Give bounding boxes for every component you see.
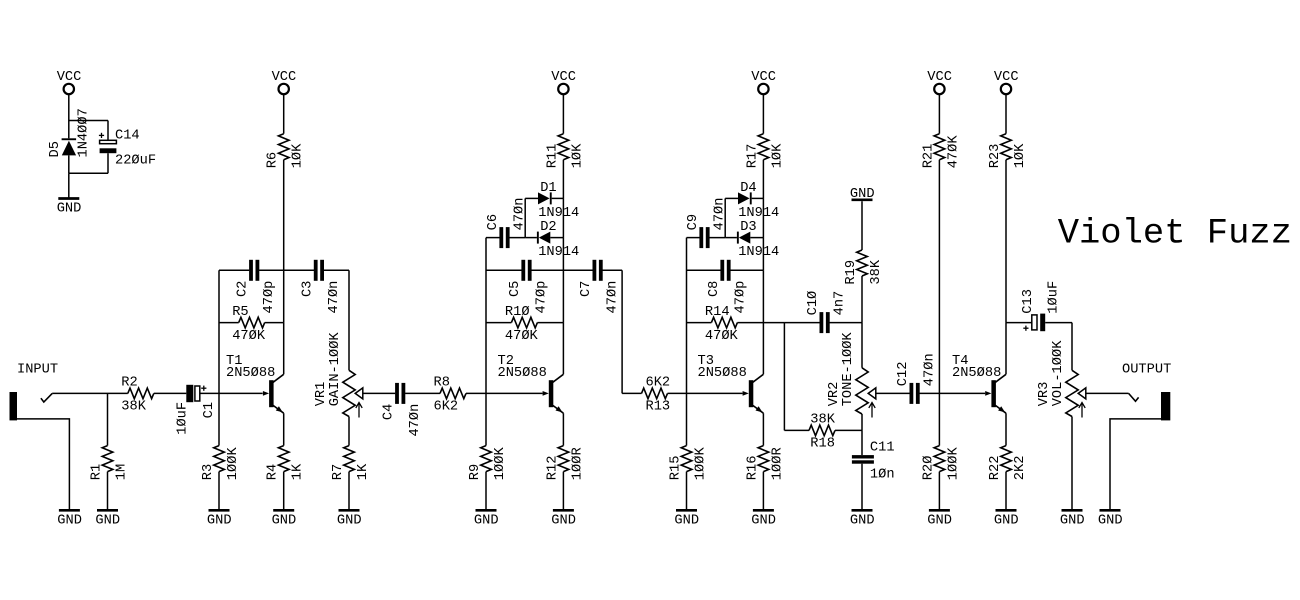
wire <box>861 276 863 323</box>
svg-text:GND: GND <box>927 513 952 528</box>
transistor T4 2N5088 <box>985 374 1006 413</box>
wire <box>762 472 764 509</box>
svg-text:GND: GND <box>551 513 576 528</box>
wire <box>219 269 249 271</box>
svg-text:GND: GND <box>57 202 82 217</box>
svg-text:D2: D2 <box>540 220 556 235</box>
wire <box>724 198 726 237</box>
svg-text:VCC: VCC <box>551 70 576 85</box>
svg-text:C9: C9 <box>686 214 701 230</box>
wire <box>218 270 220 393</box>
wire <box>108 392 128 394</box>
wire <box>725 197 738 199</box>
svg-text:VR1: VR1 <box>314 382 329 407</box>
wire <box>283 472 285 509</box>
wire <box>69 172 108 174</box>
svg-text:2N5Ø88: 2N5Ø88 <box>226 366 275 381</box>
svg-text:R18: R18 <box>810 437 835 452</box>
VCC (supply) <box>64 84 74 94</box>
resistor R8 <box>440 388 466 399</box>
svg-text:GND: GND <box>1098 513 1123 528</box>
resistor R22 <box>1001 446 1012 472</box>
capacitor C9 <box>699 227 703 248</box>
svg-text:R19: R19 <box>844 260 859 285</box>
svg-text:R6: R6 <box>266 152 281 168</box>
wire <box>938 94 940 134</box>
transistor T2 2N5088 <box>543 374 564 413</box>
output jack tip contact <box>1129 393 1139 401</box>
input jack tip contact <box>41 393 52 402</box>
svg-text:VCC: VCC <box>927 70 952 85</box>
svg-text:C1: C1 <box>202 402 217 418</box>
resistor R6 <box>278 134 289 160</box>
ground (input sleeve) <box>59 509 80 512</box>
svg-text:47Øn: 47Øn <box>327 281 342 314</box>
svg-text:R2: R2 <box>121 376 137 391</box>
svg-text:R21: R21 <box>921 144 936 169</box>
wire <box>835 429 862 431</box>
svg-text:4n7: 4n7 <box>833 291 848 316</box>
output jack sleeve wire <box>1110 419 1161 509</box>
wire <box>1045 322 1072 324</box>
svg-text:47Øp: 47Øp <box>535 281 550 314</box>
wire <box>219 322 239 324</box>
wire <box>265 322 284 324</box>
resistor R16 <box>758 446 769 472</box>
resistor R9 <box>481 446 492 472</box>
diode D4 1N914 <box>738 192 752 204</box>
resistor R17 <box>758 134 769 160</box>
wire <box>283 160 285 271</box>
capacitor C7 <box>593 260 597 281</box>
ground (R3) <box>209 509 230 512</box>
wire <box>939 392 985 394</box>
resistor R14 <box>711 317 737 328</box>
svg-text:C5: C5 <box>508 281 523 297</box>
wire <box>107 153 109 173</box>
svg-text:VR2: VR2 <box>827 382 842 407</box>
svg-text:R4: R4 <box>266 464 281 480</box>
svg-text:GND: GND <box>95 513 120 528</box>
svg-text:1K: 1K <box>291 463 306 480</box>
wire <box>154 392 187 394</box>
svg-text:1Øn: 1Øn <box>870 468 895 483</box>
svg-text:1N914: 1N914 <box>538 206 579 221</box>
wire <box>524 198 526 237</box>
wire <box>552 197 564 199</box>
wire <box>752 197 764 199</box>
wire <box>830 322 863 324</box>
wire <box>668 392 687 394</box>
wire <box>562 198 564 237</box>
wire <box>737 322 763 324</box>
svg-text:1ØØR: 1ØØR <box>570 447 585 480</box>
wire <box>861 414 863 430</box>
ground (R9) <box>476 509 497 512</box>
wire <box>730 269 763 271</box>
svg-text:R1: R1 <box>90 464 105 480</box>
transistor T1 2N5088 <box>263 374 284 413</box>
resistor R12 <box>558 446 569 472</box>
svg-text:C2: C2 <box>236 281 251 297</box>
svg-text:1ØuF: 1ØuF <box>1047 281 1062 314</box>
svg-text:R13: R13 <box>646 400 671 415</box>
svg-text:1ØK: 1ØK <box>291 143 306 168</box>
wire <box>562 238 564 271</box>
wire <box>762 413 764 445</box>
VR2 wiper <box>868 388 876 399</box>
wire <box>562 472 564 509</box>
svg-text:R14: R14 <box>705 305 730 320</box>
wire <box>486 269 522 271</box>
VR1 wiper <box>355 388 363 399</box>
wire <box>725 237 737 239</box>
svg-text:2K2: 2K2 <box>1013 456 1028 481</box>
wire <box>686 238 688 394</box>
wire <box>531 269 563 271</box>
input jack <box>10 392 18 420</box>
VR1 direction arrow <box>356 403 362 418</box>
svg-text:R15: R15 <box>669 456 684 481</box>
capacitor C3 <box>314 260 318 281</box>
ground (C11) <box>852 509 873 512</box>
svg-text:R9: R9 <box>468 464 483 480</box>
wire <box>1005 323 1007 375</box>
wire <box>784 429 809 431</box>
wire <box>485 238 487 394</box>
wire <box>486 237 500 239</box>
svg-text:GND: GND <box>674 513 699 528</box>
wire <box>621 270 623 393</box>
svg-text:GND: GND <box>1060 513 1085 528</box>
wire <box>107 393 109 445</box>
svg-text:GND: GND <box>474 513 499 528</box>
capacitor C13 10uF electrolytic <box>1032 314 1045 332</box>
wire <box>486 322 511 324</box>
wire <box>525 237 537 239</box>
wire <box>687 392 743 394</box>
ground (R20) <box>929 509 950 512</box>
resistor R23 <box>1001 134 1012 160</box>
diode D2 1N914 <box>537 232 550 244</box>
ground (R16) <box>753 509 774 512</box>
wire <box>405 392 440 394</box>
svg-text:38K: 38K <box>121 400 146 415</box>
svg-text:47Øp: 47Øp <box>734 281 749 314</box>
capacitor C14 220uF electrolytic <box>100 140 117 153</box>
transistor T3 2N5088 <box>743 374 764 413</box>
wire <box>1006 322 1032 324</box>
svg-text:2N5Ø88: 2N5Ø88 <box>952 366 1001 381</box>
svg-text:47Øn: 47Øn <box>408 404 423 437</box>
wire <box>709 237 725 239</box>
svg-text:1ØØK: 1ØØK <box>493 447 508 481</box>
input jack sleeve wire <box>17 419 69 509</box>
VCC (R23) <box>1001 84 1011 94</box>
svg-text:1ØØK: 1ØØK <box>226 447 241 481</box>
svg-text:R7: R7 <box>331 464 346 480</box>
wire <box>550 237 563 239</box>
VCC (R21) <box>934 84 944 94</box>
wire <box>107 121 109 141</box>
wire <box>687 269 721 271</box>
wire <box>259 269 284 271</box>
wire <box>466 392 486 394</box>
svg-text:47ØK: 47ØK <box>946 135 961 169</box>
svg-text:C11: C11 <box>870 440 895 455</box>
wire <box>686 393 688 445</box>
wire <box>218 393 220 445</box>
wire <box>485 393 487 445</box>
wire <box>324 269 349 271</box>
svg-text:R23: R23 <box>988 144 1003 169</box>
capacitor C10 <box>820 312 824 333</box>
diode D3 1N914 <box>737 232 750 244</box>
svg-text:1ØØR: 1ØØR <box>770 447 785 480</box>
capacitor C8 <box>720 260 724 281</box>
wire <box>687 322 712 324</box>
svg-text:D1: D1 <box>540 181 556 196</box>
svg-text:VCC: VCC <box>994 70 1019 85</box>
svg-text:R11: R11 <box>545 144 560 169</box>
wire <box>1005 413 1007 445</box>
svg-text:1N914: 1N914 <box>538 245 579 260</box>
wire <box>762 94 764 134</box>
svg-text:VCC: VCC <box>272 70 297 85</box>
wire <box>283 413 285 445</box>
svg-text:1ØuF: 1ØuF <box>176 402 191 435</box>
svg-text:GND: GND <box>207 513 232 528</box>
svg-text:2N5Ø88: 2N5Ø88 <box>698 366 747 381</box>
svg-text:R3: R3 <box>201 464 216 480</box>
svg-text:D5: D5 <box>48 141 63 157</box>
capacitor C4 <box>395 383 399 404</box>
svg-text:R1Ø: R1Ø <box>505 305 530 320</box>
output jack <box>1161 392 1170 420</box>
ground (R1) <box>97 509 118 512</box>
resistor R1 <box>102 446 113 472</box>
resistor R5 <box>239 317 265 328</box>
wire <box>784 322 819 324</box>
wire <box>283 94 285 134</box>
ground (R7) <box>339 509 360 512</box>
svg-text:C14: C14 <box>115 129 140 144</box>
wire <box>938 160 940 394</box>
wire <box>686 472 688 509</box>
svg-text:GND: GND <box>994 513 1019 528</box>
wire <box>938 472 940 509</box>
resistor R4 <box>278 446 289 472</box>
wire <box>1005 472 1007 509</box>
svg-text:VR3: VR3 <box>1037 382 1052 407</box>
svg-text:1ØØK: 1ØØK <box>946 447 961 481</box>
capacitor C12 <box>910 383 914 404</box>
wire <box>283 323 285 375</box>
wire <box>622 392 641 394</box>
wire <box>1071 323 1073 371</box>
svg-text:C6: C6 <box>486 214 501 230</box>
wire <box>68 94 70 120</box>
svg-text:1N4ØØ7: 1N4ØØ7 <box>77 108 92 157</box>
svg-text:1K: 1K <box>356 463 371 480</box>
ground (R15) <box>676 509 697 512</box>
svg-text:38K: 38K <box>869 259 884 284</box>
svg-text:1ØK: 1ØK <box>1013 143 1028 168</box>
svg-text:C13: C13 <box>1021 289 1036 314</box>
wire <box>68 173 70 197</box>
wire <box>562 323 564 375</box>
wire <box>284 269 314 271</box>
resistor R18 <box>809 425 835 436</box>
svg-text:C12: C12 <box>896 362 911 387</box>
svg-text:1ØK: 1ØK <box>570 143 585 168</box>
resistor R20 <box>934 446 945 472</box>
capacitor C5 <box>521 260 525 281</box>
VCC (T2) <box>558 84 568 94</box>
resistor R7 <box>344 446 355 472</box>
svg-text:C7: C7 <box>579 281 594 297</box>
wire <box>562 94 564 134</box>
svg-text:R17: R17 <box>745 144 760 169</box>
wire <box>485 472 487 509</box>
resistor R13 <box>642 388 668 399</box>
svg-text:D4: D4 <box>740 181 756 196</box>
svg-text:GND: GND <box>57 513 82 528</box>
wire <box>1005 94 1007 134</box>
svg-text:47Øn: 47Øn <box>606 281 621 314</box>
VR3 direction arrow <box>1079 403 1085 418</box>
potentiometer VR2 <box>856 368 868 414</box>
svg-text:6K2: 6K2 <box>646 376 671 391</box>
wire <box>920 392 940 394</box>
wire <box>219 392 263 394</box>
wire <box>562 413 564 445</box>
svg-text:1N914: 1N914 <box>738 206 779 221</box>
svg-text:R12: R12 <box>545 456 560 481</box>
wire <box>783 323 785 431</box>
wire <box>1086 392 1129 394</box>
wire <box>107 472 109 509</box>
svg-text:GAIN-1ØØK: GAIN-1ØØK <box>328 332 343 407</box>
svg-text:INPUT: INPUT <box>17 362 58 377</box>
ground (VR3) <box>1062 509 1083 512</box>
resistor R21 <box>934 134 945 160</box>
wire <box>68 121 70 139</box>
ground (R4) <box>273 509 294 512</box>
VCC (T3) <box>758 84 768 94</box>
svg-text:C3: C3 <box>300 281 315 297</box>
svg-text:R8: R8 <box>434 376 450 391</box>
wire <box>486 392 543 394</box>
wire <box>348 270 350 370</box>
svg-text:1ØK: 1ØK <box>770 143 785 168</box>
svg-text:38K: 38K <box>810 413 835 428</box>
wire <box>525 197 538 199</box>
svg-text:47ØK: 47ØK <box>705 329 739 344</box>
svg-text:VCC: VCC <box>57 70 82 85</box>
ground (R12) <box>553 509 574 512</box>
wire <box>762 270 764 322</box>
wire <box>218 472 220 509</box>
svg-text:R2Ø: R2Ø <box>921 456 936 481</box>
wire <box>762 198 764 237</box>
wire <box>68 155 70 173</box>
wire <box>509 237 525 239</box>
capacitor C6 <box>499 227 503 248</box>
capacitor C11 10n <box>852 455 874 464</box>
wire <box>687 237 700 239</box>
svg-text:2N5Ø88: 2N5Ø88 <box>498 366 547 381</box>
wire <box>348 417 350 446</box>
svg-text:GND: GND <box>751 513 776 528</box>
wire <box>562 270 564 322</box>
svg-text:D3: D3 <box>740 220 756 235</box>
svg-text:TONE-1ØØK: TONE-1ØØK <box>841 332 856 407</box>
potentiometer VR1 <box>343 370 355 416</box>
potentiometer VR3 <box>1066 370 1078 416</box>
ground (output sleeve) <box>1100 509 1121 512</box>
wire <box>762 160 764 199</box>
capacitor C2 <box>249 260 253 281</box>
svg-text:C1Ø: C1Ø <box>806 291 821 316</box>
wire <box>861 430 863 455</box>
C1 polarity + <box>201 386 206 391</box>
resistor R2 <box>128 388 154 399</box>
wire <box>563 269 592 271</box>
svg-text:47ØK: 47ØK <box>232 329 266 344</box>
wire <box>363 392 396 394</box>
wire <box>69 120 108 122</box>
svg-text:GND: GND <box>850 187 875 202</box>
ground (R19 top) <box>852 198 873 201</box>
wire <box>348 472 350 509</box>
wire <box>603 269 623 271</box>
VR2 direction arrow <box>869 403 875 418</box>
resistor R3 <box>214 446 225 472</box>
svg-text:R22: R22 <box>988 456 1003 481</box>
svg-text:GND: GND <box>272 513 297 528</box>
VR3 wiper <box>1078 388 1086 399</box>
svg-text:Violet Fuzz: Violet Fuzz <box>1058 213 1292 254</box>
wire <box>200 392 219 394</box>
svg-text:VOL-1ØØK: VOL-1ØØK <box>1051 340 1066 406</box>
svg-text:1N914: 1N914 <box>738 245 779 260</box>
svg-text:R5: R5 <box>232 305 248 320</box>
resistor R15 <box>681 446 692 472</box>
svg-text:OUTPUT: OUTPUT <box>1122 362 1171 377</box>
wire <box>762 238 764 271</box>
svg-text:6K2: 6K2 <box>434 400 459 415</box>
svg-text:VCC: VCC <box>751 70 776 85</box>
svg-text:47Øn: 47Øn <box>923 353 938 386</box>
VCC (T1) <box>279 84 289 94</box>
resistor R11 <box>558 134 569 160</box>
svg-text:47Øp: 47Øp <box>262 281 277 314</box>
diode D1 1N914 <box>538 192 552 204</box>
svg-text:1M: 1M <box>115 464 130 480</box>
wire <box>750 237 763 239</box>
svg-text:R16: R16 <box>745 456 760 481</box>
wire <box>52 392 107 394</box>
wire <box>762 323 764 375</box>
svg-text:1ØØK: 1ØØK <box>694 447 709 481</box>
resistor R10 <box>511 317 537 328</box>
wire <box>861 201 863 250</box>
svg-text:22ØuF: 22ØuF <box>115 153 156 168</box>
svg-text:C4: C4 <box>382 404 397 420</box>
ground (R22) <box>996 509 1017 512</box>
wire <box>876 392 910 394</box>
